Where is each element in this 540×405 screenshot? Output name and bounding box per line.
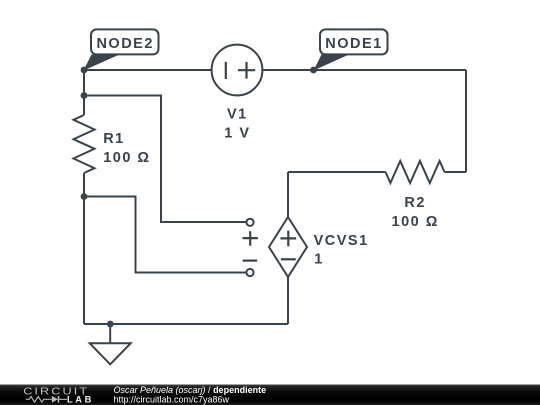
wire bottom horizontal [84, 323, 288, 325]
node dot left rail lower junction [81, 193, 88, 200]
VCVS1 inner plus [280, 231, 296, 247]
VCVS1 inner minus [281, 258, 296, 260]
voltage source V1 plus sign [238, 62, 255, 79]
VCVS1 control terminal minus circle [246, 269, 253, 276]
node dot left rail upper junction [81, 92, 88, 99]
svg-text:http://circuitlab.com/c7ya86w: http://circuitlab.com/c7ya86w [114, 394, 230, 404]
resistor R2 [386, 161, 445, 183]
svg-text:R2: R2 [404, 195, 426, 211]
wire right vertical [465, 70, 467, 172]
svg-text:R1: R1 [103, 131, 125, 147]
footer bar [0, 385, 540, 405]
logo wire after diode [59, 398, 68, 400]
wire ground stub [109, 324, 111, 343]
voltage source V1 circle [212, 45, 263, 96]
wire R2 right lead [445, 171, 467, 173]
wire VCVS1 bottom lead [287, 277, 289, 324]
ground symbol [90, 343, 131, 364]
wire R2 left lead [288, 171, 386, 173]
wire top-left horizontal [84, 69, 212, 71]
voltage source V1 minus bar [225, 62, 227, 79]
svg-text:100 Ω: 100 Ω [392, 214, 439, 230]
node dot NODE2 [81, 67, 88, 74]
wire control minus [84, 197, 246, 273]
callout NODE2 box [91, 29, 159, 54]
wire top-right horizontal [262, 69, 466, 71]
wire VCVS1 top lead [287, 172, 289, 217]
wire control plus [84, 96, 246, 223]
VCVS1 control terminal plus circle [246, 219, 253, 226]
node dot NODE1 [310, 67, 317, 74]
VCVS1 control plus sign [243, 231, 258, 246]
svg-text:VCVS1: VCVS1 [314, 233, 369, 249]
callout NODE1 tail [314, 55, 350, 71]
logo diode bar [58, 396, 60, 403]
svg-text:LAB: LAB [67, 394, 94, 404]
svg-text:1: 1 [314, 252, 324, 268]
svg-text:Oscar Peñuela (oscarj) / depen: Oscar Peñuela (oscarj) / dependiente [114, 385, 267, 395]
svg-text:NODE1: NODE1 [325, 36, 382, 52]
callout NODE1 box [320, 29, 388, 54]
svg-text:V1: V1 [227, 107, 248, 123]
svg-text:100 Ω: 100 Ω [103, 150, 150, 166]
wire left rail lower [83, 173, 85, 324]
svg-text:NODE2: NODE2 [96, 36, 153, 52]
resistor R1 [74, 115, 95, 173]
callout NODE2 tail [84, 55, 120, 71]
wire left rail upper [83, 70, 85, 115]
dependent source VCVS1 diamond [269, 217, 307, 277]
node dot ground junction [107, 321, 114, 328]
svg-text:1 V: 1 V [224, 126, 250, 142]
VCVS1 control minus sign [243, 260, 257, 262]
logo wire with resistor [26, 397, 52, 403]
logo diode [52, 396, 58, 403]
